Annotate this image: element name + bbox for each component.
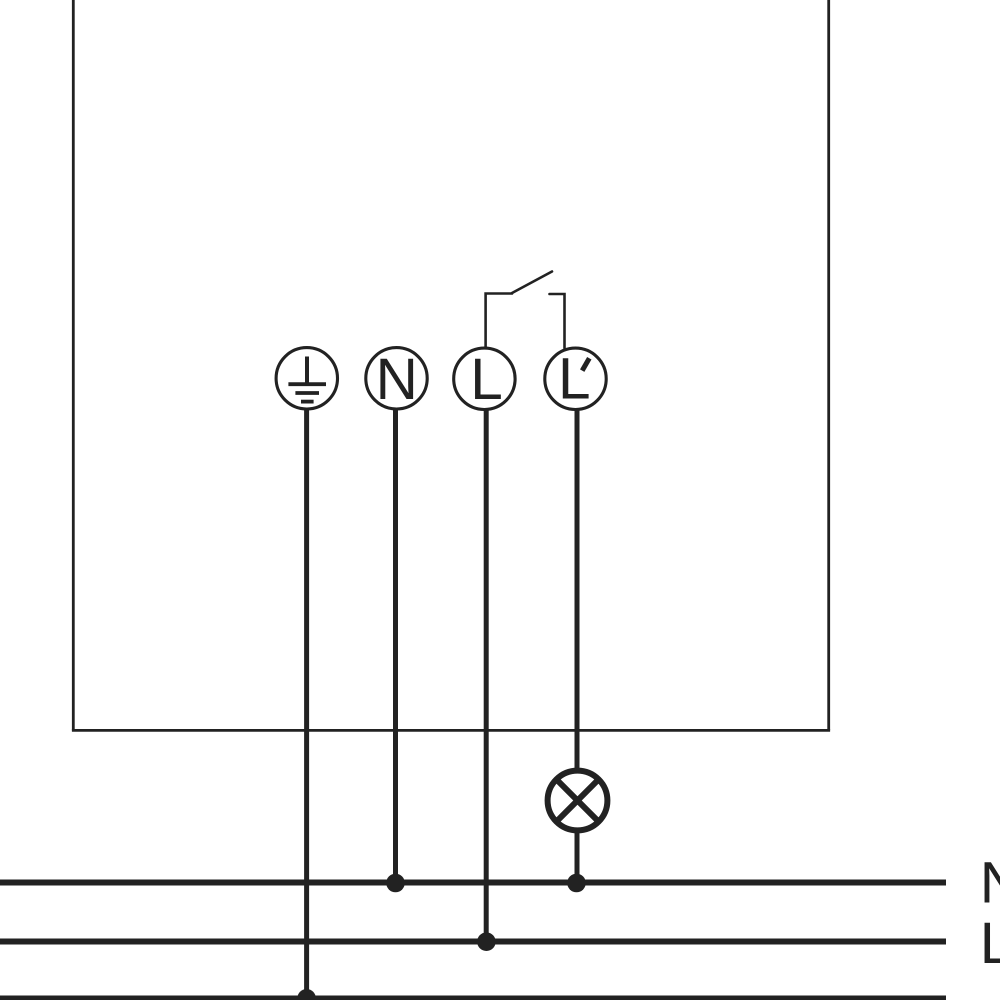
svg-text:N: N — [376, 347, 418, 412]
svg-text:L: L — [470, 347, 503, 412]
svg-text:N: N — [980, 851, 1000, 916]
svg-text:L: L — [558, 346, 591, 411]
svg-text:L: L — [980, 911, 1000, 976]
